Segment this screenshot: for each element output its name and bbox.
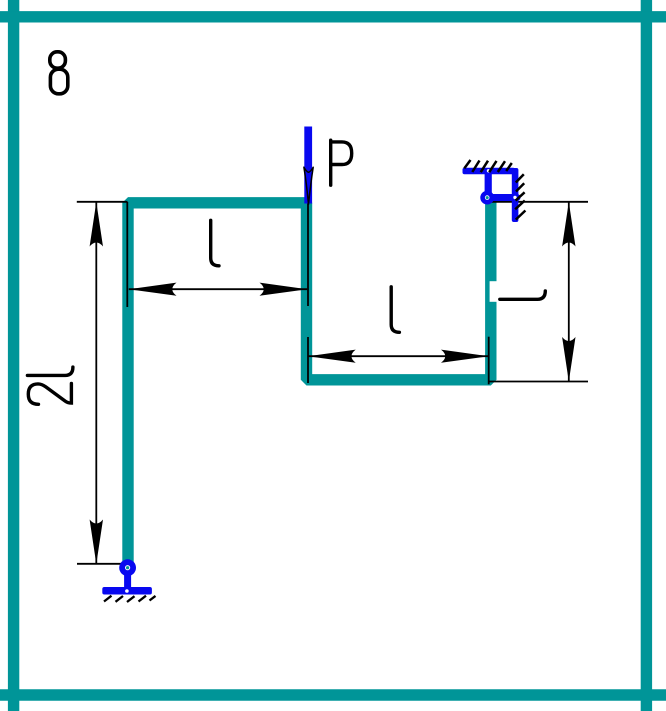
hatching right of right bar: [515, 174, 525, 219]
arrowhead right: [441, 350, 489, 363]
pinned support B (top of right column, wall bracket): [463, 160, 526, 222]
ext line top: [489, 201, 589, 203]
arrowhead bottom: [562, 337, 575, 382]
base bar: [102, 587, 152, 595]
dimension l (top, between left and middle columns): [127, 202, 308, 307]
link: [124, 570, 131, 588]
hatching above top bar: [464, 160, 512, 172]
pin circle: [119, 559, 136, 576]
arrowhead right: [260, 283, 308, 296]
ext line bottom: [489, 381, 588, 383]
letter l: [27, 367, 73, 375]
ext line bottom: [77, 563, 130, 565]
dim line: [129, 288, 307, 290]
white dot on link joint: [513, 196, 516, 199]
ext line right: [488, 337, 490, 385]
pinned support A (bottom of left column): [102, 559, 155, 602]
border top: [0, 11, 666, 22]
label P: [331, 140, 352, 185]
ext line left: [126, 202, 128, 307]
label l (bottom dimension): [391, 287, 399, 333]
dim line: [95, 202, 97, 564]
label background knockout on right column: [490, 281, 498, 302]
frame members (teal polyline: left column, top beam, middle column, bottom beam, right column): [128, 202, 491, 563]
border right: [641, 0, 652, 711]
ext line left: [307, 337, 309, 383]
arrowhead left: [129, 283, 177, 296]
border left: [8, 0, 19, 711]
dim line: [308, 355, 489, 357]
pin circle: [480, 191, 494, 205]
dimension 2l (left, height of left column): [77, 202, 131, 564]
label 8 (problem number): [50, 52, 68, 94]
top bar: [463, 168, 516, 174]
hatching below base: [104, 596, 156, 602]
label l (top dimension): [211, 220, 219, 265]
dimension l (bottom, between middle and right columns): [308, 337, 489, 385]
white dot on top bar: [487, 169, 490, 172]
digit 2: [28, 384, 71, 405]
ext line top: [77, 201, 128, 203]
arrowhead bottom: [90, 520, 103, 565]
arrowhead top: [90, 202, 103, 247]
dim line: [568, 202, 570, 382]
load P arrow (blue with black outline arrowhead): [304, 127, 313, 205]
label l (right dimension, rotated 90deg CCW): [500, 291, 546, 299]
border bottom: [0, 689, 666, 700]
short vertical link: [485, 170, 492, 198]
horizontal link: [486, 194, 521, 201]
dimension l (right, height of right column): [489, 202, 589, 382]
ext line right: [307, 202, 309, 306]
arrowhead top: [562, 202, 575, 247]
base white dot: [125, 589, 129, 593]
label 2l (rotated 90deg CCW): [27, 367, 73, 404]
right bar: [512, 168, 519, 222]
arrowhead left: [308, 350, 356, 363]
